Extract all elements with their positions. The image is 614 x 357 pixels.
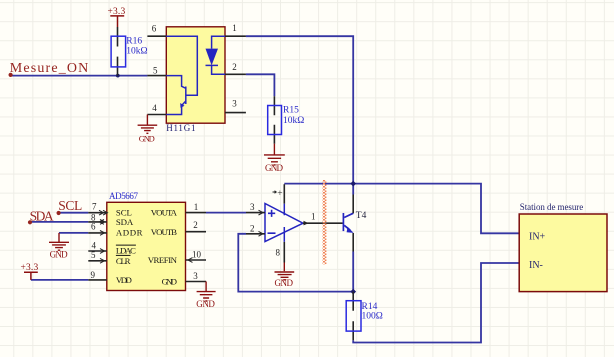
svg-text:T4: T4 bbox=[356, 211, 367, 221]
svg-text:10: 10 bbox=[192, 250, 202, 260]
svg-text:SCL: SCL bbox=[58, 198, 82, 213]
svg-text:2: 2 bbox=[250, 224, 255, 234]
svg-text:2: 2 bbox=[193, 220, 198, 230]
svg-text:7: 7 bbox=[92, 202, 97, 212]
svg-text:SDA: SDA bbox=[116, 217, 134, 227]
svg-text:2: 2 bbox=[232, 62, 237, 72]
svg-text:R15: R15 bbox=[283, 106, 299, 116]
svg-text:GND: GND bbox=[265, 163, 284, 173]
svg-text:ADDR: ADDR bbox=[116, 228, 143, 238]
svg-text:5: 5 bbox=[153, 66, 158, 76]
svg-text:1: 1 bbox=[311, 212, 316, 222]
svg-text:GND: GND bbox=[162, 277, 177, 287]
svg-text:GND: GND bbox=[139, 134, 155, 144]
svg-text:VOUTB: VOUTB bbox=[151, 227, 177, 237]
svg-text:Station de mesure: Station de mesure bbox=[520, 202, 583, 212]
svg-text:AD5667: AD5667 bbox=[109, 191, 139, 201]
svg-text:VREFIN: VREFIN bbox=[148, 255, 178, 265]
svg-text:1: 1 bbox=[232, 23, 237, 33]
svg-text:+3.3: +3.3 bbox=[21, 263, 39, 273]
svg-text:3: 3 bbox=[250, 202, 255, 212]
svg-text:R16: R16 bbox=[126, 37, 142, 47]
svg-text:VDD: VDD bbox=[116, 275, 132, 285]
svg-text:GND: GND bbox=[50, 250, 69, 260]
svg-text:8: 8 bbox=[276, 248, 281, 258]
svg-text:VOUTA: VOUTA bbox=[151, 208, 178, 218]
svg-text:GND: GND bbox=[196, 299, 215, 309]
svg-text:R14: R14 bbox=[362, 302, 378, 312]
svg-text:+: + bbox=[277, 189, 282, 199]
svg-text:3: 3 bbox=[232, 98, 237, 108]
svg-text:Mesure_ON: Mesure_ON bbox=[10, 61, 89, 76]
svg-text:LDAC: LDAC bbox=[116, 245, 136, 255]
svg-text:IN+: IN+ bbox=[529, 232, 546, 243]
svg-text:100Ω: 100Ω bbox=[362, 312, 383, 322]
svg-text:9: 9 bbox=[91, 270, 96, 280]
svg-text:CLR: CLR bbox=[116, 256, 131, 266]
svg-text:6: 6 bbox=[152, 24, 157, 34]
svg-text:1: 1 bbox=[194, 202, 199, 212]
svg-text:H11G1: H11G1 bbox=[166, 123, 195, 133]
svg-text:10kΩ: 10kΩ bbox=[126, 47, 147, 57]
svg-text:5: 5 bbox=[91, 250, 96, 260]
svg-text:+3.3: +3.3 bbox=[108, 7, 126, 17]
svg-text:6: 6 bbox=[91, 221, 96, 231]
svg-text:3: 3 bbox=[193, 271, 198, 281]
svg-text:IN-: IN- bbox=[529, 260, 543, 271]
svg-text:10kΩ: 10kΩ bbox=[283, 116, 304, 126]
svg-text:SDA: SDA bbox=[30, 208, 54, 223]
svg-text:GND: GND bbox=[275, 278, 294, 288]
svg-text:4: 4 bbox=[152, 103, 157, 113]
